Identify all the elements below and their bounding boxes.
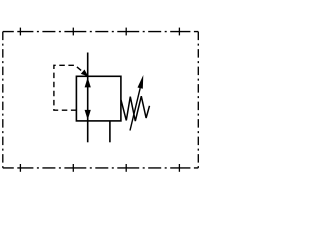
spring bbox=[121, 96, 150, 121]
border tick marks bottom bbox=[20, 164, 179, 172]
border tick marks top bbox=[20, 28, 179, 36]
pilot line (dashed) bbox=[54, 65, 86, 110]
spring adjust arrow shaft bbox=[130, 88, 140, 130]
enclosure border bottom bbox=[3, 167, 199, 169]
spring adjust arrowhead bbox=[138, 75, 144, 89]
port line P (vertical through valve) bbox=[87, 53, 89, 143]
enclosure border top bbox=[3, 31, 199, 33]
enclosure border right bbox=[197, 32, 199, 168]
flow arrow up head bbox=[85, 77, 91, 87]
port line T (stub below valve) bbox=[109, 121, 111, 142]
flow arrow down head bbox=[85, 110, 91, 120]
pilot arrowhead bbox=[81, 70, 88, 77]
enclosure border left bbox=[2, 32, 4, 168]
valve body square bbox=[76, 76, 121, 121]
